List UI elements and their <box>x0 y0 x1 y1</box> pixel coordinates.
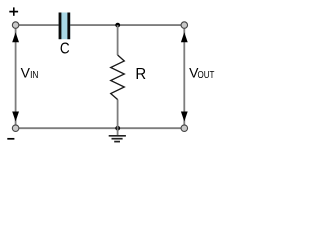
svg-text:IN: IN <box>30 70 38 81</box>
svg-text:OUT: OUT <box>198 70 215 81</box>
svg-text:R: R <box>135 66 146 83</box>
svg-text:C: C <box>60 41 70 58</box>
svg-text:V: V <box>21 65 31 81</box>
